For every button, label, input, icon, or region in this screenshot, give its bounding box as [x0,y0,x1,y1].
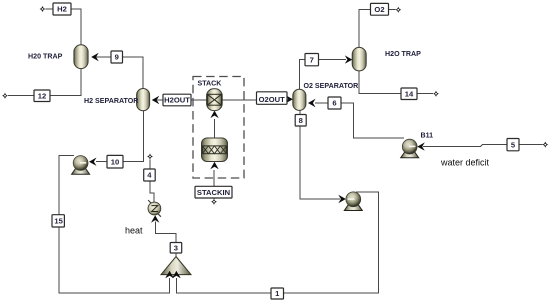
svg-text:14: 14 [405,89,414,98]
svg-text:water deficit: water deficit [440,158,490,168]
svg-text:O2: O2 [374,5,384,14]
svg-text:H20 TRAP: H20 TRAP [28,53,63,61]
svg-text:O2 SEPARATOR: O2 SEPARATOR [304,82,359,90]
svg-text:15: 15 [54,217,63,226]
svg-text:STACK: STACK [198,80,223,88]
svg-text:9: 9 [115,53,119,62]
svg-text:6: 6 [332,99,336,108]
svg-text:H2OUT: H2OUT [164,96,190,105]
svg-text:7: 7 [310,55,314,64]
svg-text:H2: H2 [57,5,67,14]
svg-text:8: 8 [299,116,303,125]
svg-text:3: 3 [174,243,178,252]
svg-text:O2OUT: O2OUT [259,95,286,104]
svg-text:STACKIN: STACKIN [197,188,230,197]
svg-text:H2 SEPARATOR: H2 SEPARATOR [84,97,138,105]
svg-text:B11: B11 [421,132,434,140]
svg-text:heat: heat [125,225,143,235]
svg-text:12: 12 [38,91,46,100]
svg-text:H2O TRAP: H2O TRAP [385,50,421,58]
svg-text:10: 10 [111,157,119,166]
